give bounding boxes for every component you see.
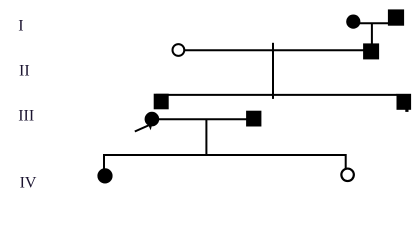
proband pointer slash xyxy=(135,125,151,132)
female III-2 affected, proband (filled circle) xyxy=(145,112,160,127)
wire: descent from generation I couple xyxy=(371,23,373,44)
svg-text:I: I xyxy=(18,17,23,34)
wire: drop to IV-1 xyxy=(103,154,105,169)
male III-1 affected (filled square) xyxy=(154,94,169,110)
male III-3 affected (filled square) xyxy=(397,94,412,110)
wire: generation III couple line xyxy=(152,118,247,120)
male I-2 affected (filled square) xyxy=(388,9,404,25)
svg-text:III: III xyxy=(18,108,34,125)
male II-2 affected (filled square) xyxy=(363,43,379,59)
female II-1 unaffected (open circle) xyxy=(173,44,185,56)
wire: descent from generation III couple xyxy=(205,119,207,156)
female IV-1 affected (filled circle) xyxy=(97,168,112,183)
wire: generation III sibship line xyxy=(156,94,397,96)
male III-4 affected (filled square) xyxy=(246,111,261,127)
wire: generation IV sibship line xyxy=(104,154,346,156)
wire: drop to IV-2 xyxy=(345,154,347,168)
wire: descent from generation II couple (overshooting vertical) xyxy=(272,43,274,99)
small nub below male III-3 xyxy=(405,110,408,112)
svg-text:IV: IV xyxy=(20,175,37,192)
svg-text:II: II xyxy=(19,63,30,80)
female IV-2 unaffected (open circle) xyxy=(341,169,354,182)
wire: generation I couple line xyxy=(353,22,390,24)
female I-1 affected (filled circle) xyxy=(346,15,360,29)
wire: generation II couple line xyxy=(184,49,364,51)
proband pointer tip below circle xyxy=(149,126,152,130)
